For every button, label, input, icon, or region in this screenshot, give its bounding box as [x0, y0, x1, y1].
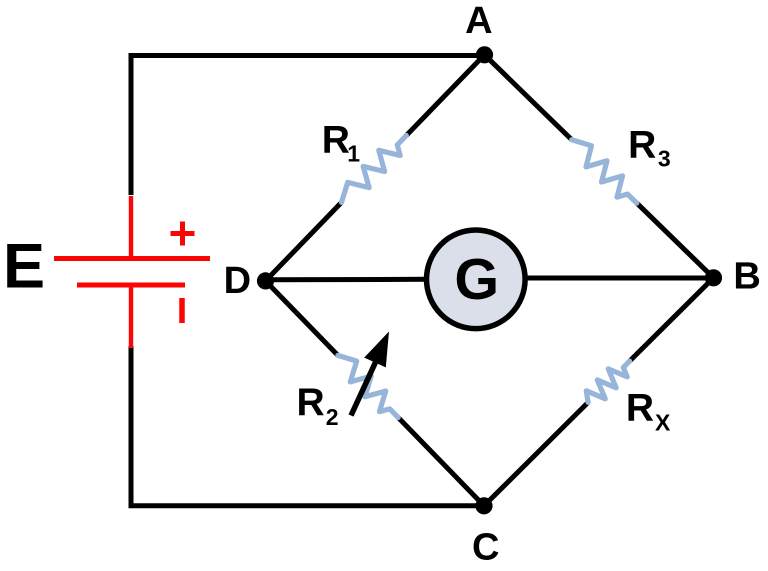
battery E: positive lead	[129, 196, 133, 257]
node D junction dot	[257, 272, 274, 289]
wire: battery positive terminal up and across to node A	[131, 56, 485, 196]
svg-text:R: R	[297, 381, 325, 424]
wire: node D to R2	[266, 281, 338, 356]
variable resistor R2 arrow shaft	[351, 359, 377, 416]
variable resistor R2 arrowhead	[364, 332, 389, 368]
wire: node A to R3	[485, 55, 572, 140]
svg-text:E: E	[3, 231, 45, 301]
svg-text:1: 1	[347, 141, 360, 167]
wire: node C to RX	[484, 402, 588, 505]
battery E: negative lead	[129, 287, 133, 348]
svg-text:R: R	[626, 387, 654, 430]
wire: RX to node B	[630, 278, 714, 361]
wire: node A to R1	[406, 55, 484, 136]
node B junction dot	[705, 269, 722, 286]
svg-text:B: B	[733, 255, 760, 297]
resistor R3 zigzag	[572, 140, 637, 203]
galvanometer G body	[427, 230, 526, 329]
battery E: minus sign (vertical bar)	[179, 298, 185, 323]
wire: battery negative terminal down and across to node C	[131, 346, 484, 506]
wire: R2 to node C	[398, 418, 484, 506]
battery E: long positive plate	[54, 256, 210, 261]
svg-text:X: X	[655, 409, 671, 435]
svg-text:G: G	[454, 248, 499, 312]
node C junction dot	[475, 497, 492, 514]
resistor R2 zigzag (variable)	[338, 355, 398, 417]
wire: node D to galvanometer	[266, 277, 428, 283]
svg-text:R: R	[628, 123, 656, 166]
svg-text:2: 2	[326, 404, 339, 430]
battery E: plus sign	[171, 222, 195, 246]
battery E: short negative plate	[77, 283, 185, 288]
node A junction dot	[476, 46, 493, 63]
wire: galvanometer to node B	[525, 276, 714, 281]
svg-text:A: A	[465, 0, 492, 42]
svg-text:C: C	[472, 527, 499, 566]
svg-text:D: D	[224, 260, 251, 302]
wire: R3 to node B	[637, 203, 714, 278]
resistor RX zigzag	[586, 361, 629, 402]
resistor R1 zigzag	[342, 136, 407, 203]
svg-text:3: 3	[658, 146, 671, 172]
wire: R1 to node D	[266, 202, 342, 281]
svg-text:R: R	[322, 119, 350, 162]
